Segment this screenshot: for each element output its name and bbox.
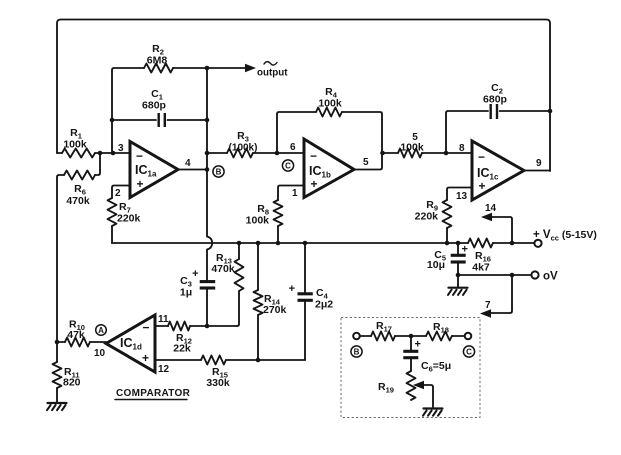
pin 8 label <box>459 143 465 154</box>
inset node B label <box>351 346 362 357</box>
wire: top feedback rail from left column to IC1c output column <box>57 20 550 172</box>
op-amp IC1d comparator <box>106 315 155 372</box>
svg-text:100k: 100k <box>63 139 87 151</box>
wire: IC1c output pin 9 to right rail <box>524 170 550 172</box>
junction R8 column on rail <box>276 241 281 246</box>
wire: supply rail from R7 bottom to R16 <box>112 242 468 244</box>
svg-text:14: 14 <box>485 203 497 214</box>
label R9 value <box>415 199 439 223</box>
label oV <box>543 271 558 283</box>
svg-text:A: A <box>98 326 104 335</box>
svg-text:1: 1 <box>292 188 298 199</box>
junction C3 bottom on R12 line <box>205 324 210 329</box>
trimmer R19 <box>407 371 416 400</box>
pin 2 label <box>115 188 121 199</box>
capacitor C1 <box>112 113 207 127</box>
svg-text:7: 7 <box>485 300 491 311</box>
node B circle <box>213 166 224 177</box>
pin 9 label <box>536 158 542 169</box>
svg-text:+: + <box>192 268 198 280</box>
junction C2 right on output column <box>548 109 553 114</box>
label R1 value <box>63 127 87 151</box>
wire: IC1c pin13 to R9 <box>447 188 472 201</box>
wire: B column vertical with hop over supply rail <box>207 68 212 281</box>
junction R14 bottom on R15 line <box>256 358 261 363</box>
label R6 value <box>66 183 90 207</box>
label R18 <box>433 321 449 335</box>
svg-text:100k: 100k <box>246 215 270 227</box>
svg-text:220k: 220k <box>117 213 141 225</box>
svg-text:820: 820 <box>63 377 81 389</box>
svg-text:13: 13 <box>456 191 468 202</box>
node junction R2-C1 column on pin3 line <box>111 151 116 156</box>
svg-text:output: output <box>257 68 288 79</box>
resistor R10 <box>57 338 106 347</box>
junction output node B <box>205 167 210 172</box>
junction R14 on rail <box>256 241 261 246</box>
pin 6 label <box>290 142 296 153</box>
node C circle <box>282 160 293 171</box>
svg-text:470k: 470k <box>66 195 90 207</box>
label C3 value <box>180 275 192 299</box>
svg-text:−: − <box>310 149 317 163</box>
svg-text:+: + <box>311 177 318 191</box>
svg-text:+: + <box>142 351 149 365</box>
svg-text:+: + <box>462 244 468 256</box>
capacitor C6 <box>403 336 421 371</box>
svg-text:+: + <box>289 283 295 295</box>
svg-text:(100k): (100k) <box>229 143 258 154</box>
junction C2 left on pin8 line <box>444 151 449 156</box>
label R2 value <box>147 43 168 67</box>
svg-text:47k: 47k <box>67 329 85 341</box>
svg-text:4k7: 4k7 <box>472 262 490 274</box>
pin 1 label <box>292 188 298 199</box>
resistor R17 <box>360 332 411 341</box>
inset dashed box <box>341 318 480 418</box>
resistor R8 <box>274 200 283 243</box>
resistor R9 <box>443 200 452 243</box>
svg-text:680p: 680p <box>483 94 507 106</box>
inset node C label <box>463 346 474 357</box>
junction R13 on rail <box>237 241 242 246</box>
wire: R6 left end down left column to comparator divider <box>57 175 64 342</box>
svg-text:C: C <box>285 162 291 171</box>
resistor R1 <box>57 149 130 158</box>
label +Vcc (5-15V) <box>533 229 597 243</box>
wire: node C to IC1b pin 6 <box>277 152 304 154</box>
svg-text:470k: 470k <box>211 263 235 275</box>
resistor R18 <box>411 332 465 341</box>
junction pin7 column on 0V line <box>510 273 515 278</box>
label R8 value <box>246 203 270 227</box>
label R17 <box>376 320 392 334</box>
capacitor C3 <box>192 268 215 326</box>
svg-text:+: + <box>137 177 144 191</box>
svg-text:+ Vcc (5-15V): + Vcc (5-15V) <box>533 229 597 243</box>
junction pin14 column on rail <box>510 241 515 246</box>
label R4 value <box>318 86 342 110</box>
resistor R5 <box>382 149 472 158</box>
trimmer wiper arrow to ground <box>413 381 433 407</box>
label R12 value <box>173 332 192 355</box>
wire: IC1b output pin 5 up to R5 line <box>354 153 382 170</box>
svg-text:220k: 220k <box>415 211 439 223</box>
svg-text:12: 12 <box>158 364 170 375</box>
op-amp IC1a <box>130 142 178 198</box>
node A circle <box>96 325 107 336</box>
wire: 0V line to terminal <box>458 274 531 276</box>
junction IC1b output node <box>380 151 385 156</box>
label C2 value <box>483 82 507 106</box>
label R14 value <box>263 293 287 316</box>
resistor R7 <box>108 198 117 243</box>
svg-text:10: 10 <box>94 348 106 359</box>
svg-text:1μ: 1μ <box>180 287 192 299</box>
svg-text:3: 3 <box>118 143 124 154</box>
svg-text:9: 9 <box>536 158 542 169</box>
wire: IC1a output pin 4 <box>178 169 207 171</box>
label R15 value <box>206 366 230 389</box>
junction node C <box>275 151 280 156</box>
pin 5 label <box>363 157 369 168</box>
resistor R15 <box>155 356 305 365</box>
svg-text:2μ2: 2μ2 <box>315 299 333 311</box>
resistor R3 <box>207 149 277 158</box>
terminal 0V <box>531 271 538 278</box>
svg-text:10μ: 10μ <box>427 259 445 271</box>
terminal +Vcc <box>534 240 541 247</box>
resistor R4 feedback loop of IC1b <box>277 108 382 154</box>
junction R2 output node <box>205 66 210 71</box>
svg-text:B: B <box>354 348 360 357</box>
svg-text:−: − <box>478 150 485 164</box>
svg-text:oV: oV <box>543 271 558 283</box>
svg-text:11: 11 <box>158 314 169 325</box>
svg-text:6M8: 6M8 <box>147 55 168 67</box>
svg-text:680p: 680p <box>142 100 166 112</box>
svg-text:B: B <box>216 168 222 177</box>
pin 14 supply arrow <box>481 203 512 243</box>
svg-text:−: − <box>136 149 143 163</box>
label R16 value <box>472 250 491 274</box>
svg-text:8: 8 <box>459 143 465 154</box>
resistor R12 <box>155 322 237 331</box>
resistor R2 <box>112 64 207 154</box>
svg-text:+: + <box>479 179 486 193</box>
capacitor C2 feedback loop of IC1c <box>446 104 548 153</box>
label R11 value <box>63 366 81 389</box>
junction C1 left <box>110 118 115 123</box>
pin 13 label <box>456 191 468 202</box>
capacitor C4 <box>289 243 313 360</box>
svg-text:330k: 330k <box>206 377 230 389</box>
svg-text:22k: 22k <box>173 343 191 355</box>
ground below C5 <box>448 275 468 295</box>
resistor R13 <box>235 243 244 326</box>
resistor R6 <box>64 171 95 180</box>
pin 10 label <box>94 348 106 359</box>
label C5 value <box>427 249 446 271</box>
svg-text:−: − <box>143 321 150 335</box>
wire: IC1b pin1 to R8 <box>278 186 304 201</box>
capacitor C5 <box>451 243 468 275</box>
junction C5 on rail <box>456 241 461 246</box>
svg-text:100k: 100k <box>318 98 342 110</box>
junction R17/R18/C6 <box>409 334 414 339</box>
ground below R11 <box>47 403 67 410</box>
inset terminal B circle <box>353 333 360 340</box>
svg-text:270k: 270k <box>263 304 287 316</box>
junction left column at R10 <box>55 340 60 345</box>
ground for trimmer wiper <box>423 409 443 416</box>
wire: R6 right end up to pin3 line <box>95 153 100 175</box>
svg-text:2: 2 <box>115 188 121 199</box>
junction R9 on rail <box>445 241 450 246</box>
resistor R16 <box>468 239 534 248</box>
resistor R11 <box>53 342 62 403</box>
label R5 value <box>400 132 424 154</box>
svg-text:5: 5 <box>363 157 369 168</box>
label R3 value <box>229 130 258 154</box>
op-amp IC1b <box>304 139 354 198</box>
pin 3 label <box>118 143 124 154</box>
label R19 <box>378 381 394 395</box>
svg-text:C: C <box>466 348 472 357</box>
wire: output arrow <box>207 64 256 72</box>
pin 12 label <box>158 364 170 375</box>
wire: IC1a pin2 to R7 <box>112 186 130 199</box>
label C6 value <box>421 360 451 374</box>
pin 11 label <box>158 314 169 325</box>
label R7 value <box>117 201 141 225</box>
pin 7 ground arrow <box>480 275 512 318</box>
label C1 value <box>142 88 166 112</box>
svg-text:4: 4 <box>185 158 191 169</box>
label C4 value <box>315 287 333 311</box>
label R10 value <box>67 319 85 342</box>
label R13 value <box>211 252 235 275</box>
pin 4 label <box>185 158 191 169</box>
svg-text:100k: 100k <box>400 142 424 154</box>
junction C5 bottom 0V node <box>456 273 461 278</box>
junction C4 on rail <box>303 241 308 246</box>
svg-text:+: + <box>415 339 421 351</box>
label COMPARATOR underlined <box>115 388 191 400</box>
op-amp IC1c <box>472 141 524 200</box>
junction C1 right <box>205 118 210 123</box>
node junction R1/R6 <box>98 151 103 156</box>
resistor R14 <box>254 243 263 360</box>
inset terminal C circle <box>465 333 472 340</box>
label output with tilde <box>257 62 288 79</box>
svg-text:COMPARATOR: COMPARATOR <box>116 388 191 399</box>
svg-text:6: 6 <box>290 142 296 153</box>
junction R3 left <box>205 151 210 156</box>
svg-text:C6=5μ: C6=5μ <box>421 360 451 374</box>
